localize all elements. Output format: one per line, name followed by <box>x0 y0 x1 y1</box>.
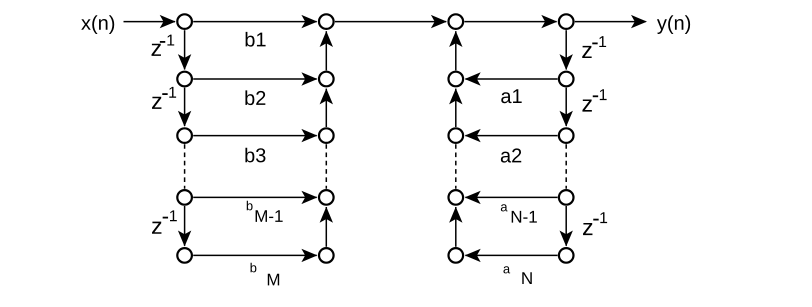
coefficient label a1 <box>501 92 511 103</box>
node C2 (summing junction) <box>449 72 464 87</box>
node A3 (summing junction) <box>177 128 192 143</box>
coefficient label b1 <box>246 32 255 47</box>
wire node D3 to node C3 with arrowhead (coefficient a2) <box>465 129 558 142</box>
delay label z-1 (D2-D3) <box>582 99 591 111</box>
coefficient label b3 <box>245 148 254 163</box>
node A1 (summing junction) <box>177 14 192 29</box>
wire node A4 to node A5 with down arrowhead (delay branch) <box>178 206 191 247</box>
node C4 (summing junction) <box>449 190 464 205</box>
node D3 (summing junction) <box>559 128 574 143</box>
node B4 (summing junction) <box>319 190 334 205</box>
dashed wire node B4 to node B3 (continuation) <box>325 144 327 189</box>
node C3 (summing junction) <box>449 128 464 143</box>
wire node D1 to output y(n) with arrowhead <box>575 15 647 28</box>
node A5 (summing junction) <box>177 248 192 263</box>
wire node D5 to node C5 with arrowhead (coefficient aN) <box>465 249 558 262</box>
delay label z-1 (A1-A2) <box>152 44 161 56</box>
node D2 (summing junction) <box>559 72 574 87</box>
node B1 (summing junction) <box>319 14 334 29</box>
wire node B5 to node B4 with up arrowhead <box>320 207 333 247</box>
coefficient label a2 <box>501 152 511 163</box>
coefficient label bM-1 <box>247 201 253 211</box>
wire node A4 to node B4 with arrowhead (coefficient bM-1) <box>193 191 317 204</box>
node B2 (summing junction) <box>319 72 334 87</box>
wire node D2 to node C2 with arrowhead (coefficient a1) <box>465 72 558 85</box>
wire node A2 to node B2 with arrowhead (coefficient b2) <box>193 72 317 85</box>
wire node C5 to node C4 with up arrowhead <box>449 207 462 247</box>
node C5 (summing junction) <box>449 248 464 263</box>
node D4 (summing junction) <box>559 190 574 205</box>
wire node A5 to node B5 with arrowhead (coefficient bM) <box>193 249 317 262</box>
delay label z-1 (A2-A3) <box>152 97 161 109</box>
coefficient label aN-1 <box>501 204 508 211</box>
node A4 (summing junction) <box>177 190 192 205</box>
node B5 (summing junction) <box>319 248 334 263</box>
input label x(n) <box>81 19 91 30</box>
node B3 (summing junction) <box>319 128 334 143</box>
dashed wire node D3 to node D4 (continuation) <box>565 144 567 189</box>
dashed wire node A3 to node A4 (continuation) <box>184 144 186 189</box>
coefficient label aN <box>503 266 510 273</box>
wire node D2 to node D3 with down arrowhead (delay branch) <box>560 88 573 127</box>
wire node B1 to node C1 with arrowhead <box>335 15 447 28</box>
wire node D4 to node C4 with arrowhead (coefficient aN-1) <box>465 191 558 204</box>
wire input x(n) to node A1 with arrowhead <box>124 15 176 28</box>
wire node C3 to node C2 with up arrowhead <box>449 88 462 127</box>
wire node B2 to node B1 with up arrowhead <box>320 31 333 70</box>
delay label z-1 (A4-A5) <box>152 222 161 234</box>
dashed wire node C4 to node C3 (continuation) <box>455 144 457 189</box>
wire node A1 to node B1 with arrowhead <box>193 15 317 28</box>
node A2 (summing junction) <box>177 72 192 87</box>
output label y(n) <box>657 19 667 34</box>
wire node A1 to node A2 with down arrowhead (delay branch) <box>178 30 191 70</box>
coefficient label b2 <box>245 90 254 105</box>
wire node D1 to node D2 with down arrowhead (delay branch) <box>560 30 573 70</box>
node D1 (summing junction) <box>559 14 574 29</box>
node C1 (summing junction) <box>449 14 464 29</box>
wire node C1 to node D1 with arrowhead <box>464 15 557 28</box>
node D5 (summing junction) <box>559 248 574 263</box>
wire node C2 to node C1 with up arrowhead <box>449 31 462 70</box>
delay label z-1 (D4-D5) <box>583 223 592 235</box>
wire node B3 to node B2 with up arrowhead <box>320 88 333 127</box>
delay label z-1 (D1-D2) <box>582 46 591 58</box>
wire node A2 to node A3 with down arrowhead (delay branch) <box>178 88 191 127</box>
wire node A3 to node B3 with arrowhead (coefficient b3) <box>193 129 317 142</box>
coefficient label bM <box>251 263 257 273</box>
wire node D4 to node D5 with down arrowhead (delay branch) <box>560 206 573 247</box>
